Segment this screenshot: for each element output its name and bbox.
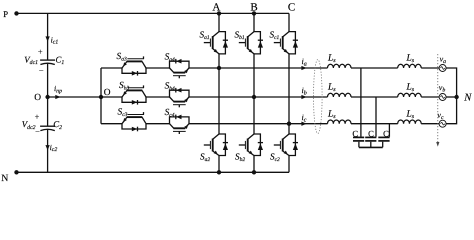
wire filter-cap leg phase c [388,124,390,137]
wire S_b1 to node B [253,54,255,97]
wire C2 to N rail [47,129,49,172]
svg-text:C: C [288,1,295,13]
label v_b [439,83,446,93]
current arrow i_a [301,57,306,70]
wire branch a bus to S_a3 [101,67,122,69]
wire O line to bidirectional bus [48,96,101,98]
svg-text:C: C [383,129,389,139]
wire S_a3 to S_a4 [146,67,170,69]
svg-text:O: O [104,88,111,98]
junction B on P rail [252,11,256,15]
wire branch c bus to S_c3 [101,123,122,125]
switch S_a4 (IGBT with antiparallel diode) [170,59,190,78]
IGBT S_c2 [274,134,298,156]
junction A on P rail [217,11,221,15]
label S_c2 [270,151,280,162]
wire N rail (bottom DC bus) [17,171,290,173]
filter capacitor C phase a [353,137,364,147]
wire phase a output to filter [219,67,328,69]
wire branch b bus to S_b3 [101,96,122,98]
svg-text:N: N [463,93,472,104]
wire filter-cap leg phase b [375,97,377,137]
polarity + of C1 [38,48,43,57]
wire column A P rail to S_a1 [218,13,220,31]
svg-text:C: C [368,129,374,139]
wire S_b2 to N rail [253,156,255,173]
wire source v_c to neutral bus [446,97,457,124]
AC grid source v_c [439,120,446,127]
svg-text:O: O [34,93,41,103]
label V_dc1 [24,55,38,67]
label node A [212,1,220,13]
IGBT S_a1 [204,32,228,54]
label S_a1 [200,30,210,41]
capacitor C2 (polarized) [40,126,55,130]
IGBT S_c1 [274,32,298,54]
inductor L_s phase a grid side [398,64,422,68]
wire S_a4 to column A [189,67,219,69]
AC grid source v_b [439,94,446,101]
wire source v_a to neutral bus [446,68,457,97]
svg-text:P: P [3,9,8,19]
polarity + of C2 [35,113,40,122]
label S_a4 [165,52,175,62]
label C1 [56,55,65,67]
label node C [288,1,295,13]
IGBT S_b2 [239,134,263,156]
inductor L_s phase b grid side [398,93,422,97]
node O at bidirectional switch input [99,88,111,99]
label C (phase a) [352,129,358,139]
label S_c4 [165,108,175,118]
junction node C phase tap [287,122,291,126]
current arrow i_np [54,84,62,99]
label S_b1 [235,30,245,41]
IGBT S_a2 [204,134,228,156]
svg-text:+: + [35,113,40,122]
wire S_c1 to node C [288,54,290,124]
IGBT S_b1 [239,32,263,54]
label v_a [440,54,447,64]
junction node B phase tap [252,95,256,99]
wire inductor to source v_c [421,123,439,125]
switch S_b4 (IGBT with antiparallel diode) [170,88,190,107]
wire S_a2 to N rail [218,156,220,173]
junction node A phase tap [217,66,221,70]
polarity - of C1 [39,66,44,75]
wire inductor to source v_b [421,96,439,98]
svg-text:−: − [35,128,40,137]
label node B [250,1,257,13]
inductor L_s phase b inverter side [328,93,352,97]
inductor L_s phase c inverter side [328,120,352,124]
inductor L_s phase c grid side [398,120,422,124]
wire column C P rail to S_c1 [288,13,290,31]
label V_dc2 [22,119,36,131]
label S_b2 [235,151,245,162]
label C2 [53,119,62,131]
wire inductor to junction phase a [351,67,398,69]
current arrow i_c1 [45,35,58,45]
filter capacitor C phase c [378,137,389,147]
wire C1 to node O [47,63,49,97]
label L_s (phase b grid side) [406,83,415,94]
wire P rail (top DC bus) [17,12,290,14]
node O (dc-link midpoint) [34,93,50,103]
switch S_c4 (IGBT with antiparallel diode) [170,115,190,134]
current arrow i_c2 [45,143,57,153]
wire filter capacitor common bar [359,146,383,148]
label S_a3 [117,52,127,62]
current arrow i_c [301,113,306,126]
wire inductor to source v_a [421,67,439,69]
label L_s (phase c grid side) [406,109,415,120]
wire source v_b to neutral bus [446,96,457,98]
wire column C node to S_c2 [288,124,290,134]
svg-text:−: − [39,66,44,75]
wire bidirectional switch vertical bus [100,68,102,124]
capacitor C1 (polarized) [40,60,55,64]
wire capacitor branch P to C1 [47,13,49,60]
svg-text:N: N [1,173,8,184]
label C (phase c) [383,129,389,139]
wire inductor to junction phase c [351,123,398,125]
three-phase bundle ellipse [314,60,323,134]
junction A on N rail [217,170,221,174]
polarity - of C2 [35,128,40,137]
wire column B P rail to S_b1 [253,13,255,31]
switch S_c3 (IGBT with antiparallel diode) [122,112,146,131]
switch S_a3 (IGBT with antiparallel diode) [122,56,146,75]
wire column B node to S_b2 [253,97,255,134]
wire S_b4 to column B [189,96,254,98]
wire inductor to junction phase b [351,96,398,98]
label L_s (phase a inverter side) [327,54,336,65]
node N (grid neutral) [454,93,472,104]
node N [1,170,19,184]
wire phase b output to filter [254,96,328,98]
filter capacitor C phase b [365,137,376,147]
wire column A node to S_a2 [218,68,220,134]
AC grid source v_a [439,65,446,72]
dashed reference line with arrow [436,54,439,147]
wire node O to C2 [47,97,49,126]
label S_c1 [270,30,280,41]
label S_a2 [200,151,210,162]
current arrow i_b [301,86,306,99]
label L_s (phase a grid side) [406,54,415,65]
label S_b4 [165,81,175,91]
inductor L_s phase a inverter side [328,64,352,68]
svg-text:+: + [38,48,43,57]
label S_b3 [119,81,129,91]
wire S_a1 to node A [218,54,220,68]
label C (phase b) [368,129,374,139]
wire S_b3 to S_b4 [146,96,170,98]
label L_s (phase b inverter side) [327,83,336,94]
junction B on N rail [252,170,256,174]
switch S_b3 (IGBT with antiparallel diode) [122,85,146,104]
svg-text:C: C [352,129,358,139]
label L_s (phase c inverter side) [327,109,336,120]
node P [3,9,19,19]
wire S_c3 to S_c4 [146,123,170,125]
wire phase c output to filter [289,123,328,125]
wire S_c2 to N rail [288,156,290,173]
wire filter-cap leg phase a [360,68,362,137]
label S_c3 [118,108,128,118]
wire S_c4 to column C [189,123,289,125]
label v_c [437,111,444,121]
